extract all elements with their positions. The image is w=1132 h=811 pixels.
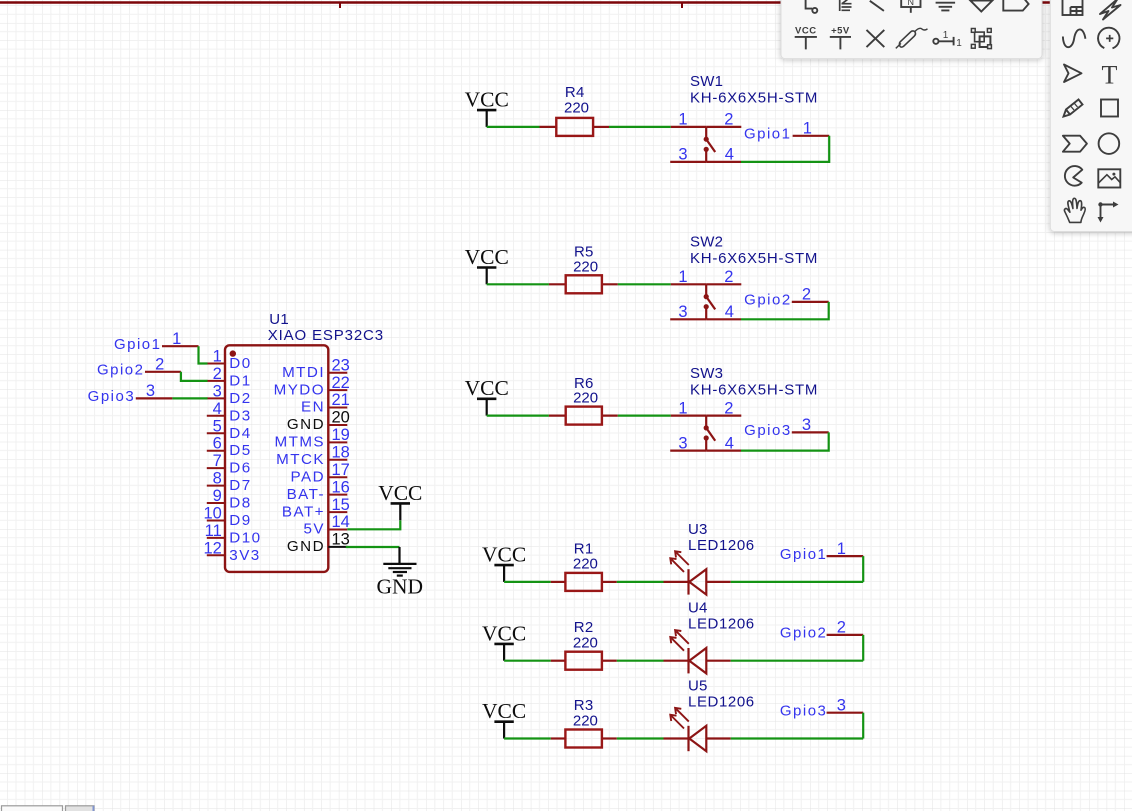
- svg-text:18: 18: [332, 444, 350, 462]
- svg-text:D4: D4: [229, 425, 251, 442]
- svg-text:2: 2: [837, 619, 846, 637]
- switch SW3 contact lever: [704, 416, 716, 451]
- wire Gpio3 to U1: [172, 397, 207, 399]
- U1 pin 21: [301, 391, 350, 416]
- svg-text:MYDO: MYDO: [274, 381, 325, 398]
- svg-text:KH-6X6X5H-STM: KH-6X6X5H-STM: [690, 381, 818, 398]
- toolbar icon: earth ground tool: [970, 1, 992, 12]
- toolbar icon: pin tool: [933, 30, 962, 49]
- wire Gpio2 to U1: [181, 372, 208, 381]
- svg-text:7: 7: [213, 452, 222, 470]
- toolbar icon: rectangle tool: [1101, 100, 1118, 117]
- svg-text:N: N: [908, 0, 915, 7]
- resistor R5 body: [566, 275, 602, 293]
- power flag VCC (U4 row): [482, 621, 526, 660]
- svg-text:BAT-: BAT-: [287, 486, 325, 503]
- toolbar icon: flash/convert tool: [1100, 0, 1121, 20]
- switch SW1 pin 4 line: [706, 161, 741, 163]
- svg-text:MTCK: MTCK: [276, 451, 325, 468]
- svg-text:Gpio1: Gpio1: [114, 336, 162, 353]
- switch SW3 pin 2 line: [706, 415, 741, 417]
- toolbar icon: spline tool: [1063, 29, 1086, 47]
- U1 pin 4: [207, 400, 252, 425]
- wire LED to net port: [731, 737, 864, 739]
- svg-text:3: 3: [678, 146, 687, 164]
- svg-text:D10: D10: [229, 529, 261, 546]
- svg-text:Gpio1: Gpio1: [780, 546, 828, 563]
- svg-text:8: 8: [213, 470, 222, 488]
- wire U1 pin 14 (5V) to VCC: [347, 520, 400, 529]
- U1 pin 10: [203, 505, 251, 530]
- net port Gpio3: [88, 382, 173, 405]
- svg-text:1: 1: [172, 330, 181, 348]
- wire VCC to R3: [504, 737, 551, 739]
- U1 pin 12: [203, 539, 260, 564]
- svg-text:VCC: VCC: [465, 88, 509, 112]
- wire LED to net port: [731, 660, 864, 662]
- svg-text:U5: U5: [688, 677, 708, 694]
- power flag VCC (U5 row): [482, 699, 526, 738]
- net port Gpio2: [97, 356, 181, 379]
- svg-text:KH-6X6X5H-STM: KH-6X6X5H-STM: [690, 250, 818, 267]
- svg-text:3V3: 3V3: [229, 547, 260, 564]
- svg-text:GND: GND: [377, 575, 424, 599]
- switch SW2 pin 1 line: [671, 283, 706, 285]
- toolbar icon: text tool: [1102, 60, 1118, 89]
- U1 pin 17: [291, 461, 350, 486]
- toolbar icon: VCC flag tool: [795, 26, 817, 50]
- wire VCC to R1: [504, 581, 551, 583]
- U1 pin 14: [304, 513, 350, 538]
- LED U5: [664, 708, 731, 751]
- svg-text:220: 220: [573, 390, 598, 407]
- wire net port down to LED row: [862, 713, 864, 739]
- resistor R3 pins: [551, 737, 566, 739]
- wire net port down to LED row: [862, 635, 864, 661]
- svg-text:KH-6X6X5H-STM: KH-6X6X5H-STM: [690, 90, 818, 107]
- switch SW3 pin 1 line: [671, 415, 706, 417]
- U1 pin 8: [207, 470, 252, 495]
- svg-text:2: 2: [213, 365, 222, 383]
- switch SW2 pin 4 line: [706, 318, 741, 320]
- U1 pin 19: [274, 426, 349, 451]
- svg-text:Gpio3: Gpio3: [744, 422, 792, 439]
- toolbar icon: ground tool: [936, 3, 956, 11]
- switch SW1 pin 2 line: [706, 126, 741, 128]
- wire VCC to R6: [487, 415, 549, 417]
- svg-text:1: 1: [678, 399, 687, 417]
- U1 pin 3: [207, 382, 252, 407]
- net port Gpio1: [744, 120, 829, 143]
- toolbar icon: net label tool: [901, 0, 920, 13]
- power flag VCC (U3 row): [482, 543, 526, 582]
- svg-text:D5: D5: [229, 442, 251, 459]
- svg-text:MTDI: MTDI: [282, 364, 325, 381]
- resistor R1 pins: [551, 581, 566, 583]
- svg-text:EN: EN: [301, 399, 325, 416]
- svg-text:5V: 5V: [304, 521, 325, 538]
- resistor R5 pins: [549, 283, 566, 285]
- bottom-left status box 1: [2, 806, 63, 811]
- svg-text:6: 6: [213, 435, 222, 453]
- svg-text:220: 220: [573, 556, 598, 573]
- svg-text:D7: D7: [229, 477, 251, 494]
- svg-text:4: 4: [725, 434, 734, 452]
- sheet border top line: [0, 1, 1132, 3]
- wire R1 to LED: [617, 581, 664, 583]
- svg-text:3: 3: [146, 382, 155, 400]
- svg-text:XIAO ESP32C3: XIAO ESP32C3: [268, 327, 384, 344]
- top floating toolbar panel: [781, 0, 1042, 59]
- switch SW3 pin 4 line: [706, 450, 741, 452]
- svg-text:14: 14: [332, 513, 350, 531]
- power flag VCC (U1 5V): [378, 481, 422, 520]
- toolbar icon: bus tool: [840, 0, 852, 11]
- svg-text:2: 2: [724, 399, 733, 417]
- net port Gpio2: [780, 619, 863, 642]
- toolbar icon: footprint tool: [1063, 0, 1083, 15]
- svg-text:D6: D6: [229, 460, 251, 477]
- U1 pin 23: [282, 356, 350, 381]
- U1 pin 18: [276, 444, 350, 469]
- switch SW1 pin 3 line: [670, 161, 706, 163]
- toolbar icon: line tool: [870, 1, 884, 11]
- svg-text:17: 17: [332, 461, 350, 479]
- svg-text:3: 3: [678, 303, 687, 321]
- svg-text:19: 19: [332, 426, 350, 444]
- svg-text:VCC: VCC: [465, 245, 509, 269]
- wire U1 pin 13 (GND) to GND flag: [346, 546, 400, 548]
- svg-text:SW1: SW1: [690, 73, 723, 90]
- svg-text:12: 12: [203, 539, 221, 557]
- svg-text:VCC: VCC: [482, 621, 526, 645]
- svg-text:D1: D1: [229, 372, 251, 389]
- svg-text:1: 1: [678, 111, 687, 129]
- svg-text:21: 21: [332, 391, 350, 409]
- svg-text:D0: D0: [229, 355, 251, 372]
- svg-text:13: 13: [332, 531, 350, 549]
- svg-text:11: 11: [205, 522, 222, 540]
- svg-text:MTMS: MTMS: [274, 434, 325, 451]
- U1 pin 9: [207, 487, 252, 512]
- switch SW2 pin 3 line: [670, 318, 706, 320]
- svg-text:D9: D9: [229, 512, 251, 529]
- U1 pin 16: [287, 478, 350, 503]
- svg-text:LED1206: LED1206: [688, 537, 755, 554]
- toolbar icon: arc tool: [1098, 28, 1119, 49]
- svg-text:220: 220: [573, 635, 598, 652]
- svg-text:+5V: +5V: [831, 26, 850, 37]
- U1 pin 20: [287, 409, 350, 434]
- wire R6 to SW3: [618, 415, 671, 417]
- svg-text:2: 2: [724, 268, 733, 286]
- power flag VCC (SW2 row): [465, 245, 509, 284]
- toolbar icon: net port tool: [1003, 0, 1028, 11]
- svg-text:5: 5: [213, 417, 222, 435]
- svg-text:GND: GND: [287, 538, 325, 555]
- svg-text:1: 1: [837, 540, 846, 558]
- U1 pin-1 marker dot: [230, 350, 236, 356]
- svg-text:Gpio1: Gpio1: [744, 126, 792, 143]
- U1 pin 22: [274, 374, 350, 399]
- svg-text:SW2: SW2: [690, 234, 723, 251]
- resistor R4 pins: [540, 126, 557, 128]
- svg-text:VCC: VCC: [378, 481, 422, 505]
- wire Gpio3 loop to SW3 pin 4: [741, 432, 829, 450]
- svg-text:10: 10: [203, 505, 221, 523]
- svg-text:1: 1: [803, 120, 812, 138]
- resistor R1 body: [565, 573, 602, 591]
- resistor R3 body: [565, 730, 602, 748]
- U1 pin 7: [207, 452, 252, 477]
- wire Gpio2 loop to SW2 pin 4: [741, 302, 829, 319]
- svg-text:PAD: PAD: [291, 468, 325, 485]
- svg-text:D8: D8: [229, 495, 251, 512]
- toolbar icon: arc/pie tool: [1065, 166, 1082, 186]
- svg-text:2: 2: [155, 356, 164, 374]
- svg-text:220: 220: [564, 100, 589, 117]
- svg-text:1: 1: [956, 38, 962, 49]
- svg-text:3: 3: [802, 416, 811, 434]
- svg-text:20: 20: [332, 409, 350, 427]
- svg-text:VCC: VCC: [482, 543, 526, 567]
- svg-text:D2: D2: [229, 390, 251, 407]
- svg-text:Gpio3: Gpio3: [88, 388, 136, 405]
- svg-text:Gpio2: Gpio2: [97, 362, 145, 379]
- net port Gpio3: [744, 416, 829, 439]
- U1 pin 6: [207, 435, 252, 460]
- wire R2 to LED: [617, 660, 664, 662]
- op-amp U1 body (IC outline): [225, 345, 328, 572]
- svg-text:4: 4: [725, 146, 734, 164]
- svg-text:Gpio2: Gpio2: [780, 625, 828, 642]
- toolbar icon: +5V flag tool: [830, 26, 851, 50]
- svg-text:2: 2: [724, 111, 733, 129]
- U1 pin 1: [207, 348, 252, 373]
- resistor R4 body: [556, 118, 593, 136]
- svg-text:D3: D3: [229, 407, 251, 424]
- svg-text:22: 22: [332, 374, 350, 392]
- switch SW2 pin 2 line: [706, 283, 741, 285]
- toolbar icon: wire tool: [806, 0, 818, 13]
- svg-text:R4: R4: [565, 84, 585, 101]
- wire VCC to R2: [504, 660, 551, 662]
- svg-text:LED1206: LED1206: [688, 693, 755, 710]
- svg-text:VCC: VCC: [465, 376, 509, 400]
- wire R3 to LED: [617, 737, 664, 739]
- resistor R2 pins: [551, 660, 566, 662]
- resistor R6 pins: [549, 415, 566, 417]
- wire R5 to SW2: [618, 283, 671, 285]
- svg-text:220: 220: [573, 712, 598, 729]
- svg-text:GND: GND: [287, 416, 325, 433]
- LED U4: [664, 630, 731, 673]
- U1 pin 5: [207, 417, 252, 442]
- svg-text:3: 3: [837, 696, 846, 714]
- power flag VCC (SW3 row): [465, 376, 509, 415]
- U1 pin 2: [207, 365, 252, 390]
- toolbar icon: probe tool: [896, 28, 928, 48]
- svg-text:4: 4: [725, 303, 734, 321]
- svg-text:9: 9: [213, 487, 222, 505]
- svg-text:BAT+: BAT+: [282, 503, 325, 520]
- net port Gpio3: [780, 696, 863, 719]
- sheet border tick 1: [339, 3, 341, 9]
- svg-text:U4: U4: [688, 600, 708, 617]
- svg-text:T: T: [1102, 60, 1118, 89]
- svg-text:LED1206: LED1206: [688, 616, 755, 633]
- net port Gpio2: [744, 286, 829, 309]
- wire LED to net port: [731, 581, 864, 583]
- svg-text:1: 1: [678, 268, 687, 286]
- wire R4 to SW1: [609, 126, 671, 128]
- resistor R2 body: [565, 652, 602, 670]
- toolbar icon: hand/pan tool: [1064, 198, 1085, 222]
- svg-text:4: 4: [213, 400, 222, 418]
- toolbar icon: origin/axes tool: [1098, 202, 1119, 223]
- svg-text:16: 16: [332, 478, 350, 496]
- toolbar icon: polygon/chevron tool: [1063, 136, 1087, 152]
- wire VCC to R5: [487, 283, 549, 285]
- svg-text:1: 1: [213, 348, 222, 366]
- toolbar icon: circle tool: [1099, 133, 1120, 154]
- svg-text:3: 3: [213, 382, 222, 400]
- svg-text:Gpio3: Gpio3: [780, 703, 828, 720]
- U1 pin 13: [287, 531, 350, 556]
- svg-text:23: 23: [332, 356, 350, 374]
- switch SW1 contact lever: [704, 127, 716, 162]
- bottom-left status box 2: [66, 806, 95, 811]
- toolbar icon: group tool: [971, 29, 991, 49]
- U1 pin 15: [282, 496, 350, 521]
- wire Gpio1 to U1: [199, 346, 208, 363]
- svg-text:U3: U3: [688, 521, 708, 538]
- svg-text:VCC: VCC: [482, 699, 526, 723]
- LED U3: [664, 551, 731, 594]
- toolbar icon: no-connect flag tool: [867, 30, 885, 47]
- toolbar icon: arrow tool: [1064, 65, 1082, 83]
- svg-text:U1: U1: [269, 311, 289, 328]
- ground flag GND: [377, 547, 424, 599]
- net port Gpio1: [114, 330, 199, 353]
- svg-text:SW3: SW3: [690, 365, 723, 382]
- svg-text:VCC: VCC: [795, 26, 817, 37]
- net port Gpio1: [780, 540, 863, 563]
- svg-text:2: 2: [802, 286, 811, 304]
- svg-text:220: 220: [573, 258, 598, 275]
- switch SW2 contact lever: [704, 284, 716, 319]
- svg-text:3: 3: [678, 434, 687, 452]
- right floating toolbar panel: [1050, 0, 1132, 232]
- svg-text:Gpio2: Gpio2: [744, 292, 792, 309]
- switch SW1 pin 1 line: [671, 126, 706, 128]
- resistor R6 body: [566, 407, 602, 425]
- toolbar icon: image tool: [1098, 169, 1120, 187]
- sheet border tick 2: [681, 3, 683, 9]
- power flag VCC (SW1 row): [465, 88, 509, 127]
- U1 pin 11: [205, 522, 262, 547]
- toolbar icon: pencil/draw tool: [1064, 100, 1083, 117]
- svg-text:1: 1: [943, 30, 949, 41]
- wire Gpio1 loop to SW1 pin 4: [741, 136, 829, 162]
- switch SW3 pin 3 line: [670, 450, 706, 452]
- wire VCC to R4: [487, 126, 540, 128]
- svg-text:15: 15: [332, 496, 350, 514]
- wire net port down to LED row: [862, 556, 864, 582]
